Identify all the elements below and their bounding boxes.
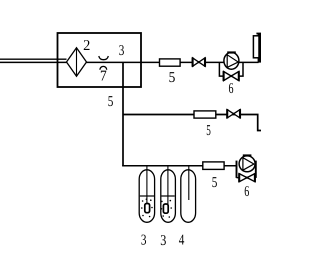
svg-text:3: 3 [119,43,125,59]
wire trunk vertical x=123 [122,62,124,166]
svg-text:4: 4 [179,232,185,248]
wire upper parallel inlet line [0,58,67,60]
svg-text:5: 5 [206,123,211,139]
bottle 3b frit [163,204,168,213]
bottle 3b liquid level [161,195,174,197]
bottle 3b dip tube [167,166,169,204]
bottle 3a liquid level [140,195,154,197]
filter element 2 (diamond) [67,48,87,77]
restrictor 5b (middle row) [194,111,216,118]
valve 6 bypass V2 [224,71,239,81]
pump P2 flange right [255,161,257,178]
tank (top right edge) [253,33,261,63]
valve V4 (below bottom pump) [239,173,255,182]
wire bottom header [122,165,237,167]
svg-text:7: 7 [100,69,107,85]
bottle 3b bubbles [161,200,172,218]
svg-text:5: 5 [108,94,114,110]
wire main supply line y=62.4 [0,61,259,63]
wire bypass loop (top pump) [219,62,243,76]
wire middle branch [123,115,261,131]
valve V1 (top row) [193,57,205,66]
bottle 3a [139,170,154,223]
arc symbol upper (smile) [99,56,109,60]
bottle 3a dip tube [146,166,148,204]
pump P2 (bottom row) [239,156,255,172]
svg-text:5: 5 [212,175,218,191]
svg-text:6: 6 [244,184,249,200]
arc symbol lower 7 (frown) [100,66,107,69]
restrictor 5a (top row) [160,59,181,66]
pump P2 flange left [236,161,238,178]
restrictor 5c (bottom row) [203,162,224,170]
bottle 4 [181,170,196,223]
enclosure box 1 [58,33,142,87]
svg-text:2: 2 [83,38,90,54]
svg-text:5: 5 [169,70,176,86]
pump P1 (top row) [224,52,239,69]
bottle 3a frit [145,204,150,213]
svg-text:3: 3 [160,233,166,249]
wire valve row connector [237,177,256,179]
bottle 3a bubbles [141,199,153,218]
filter vertical axis [76,48,78,77]
svg-text:3: 3 [141,232,147,248]
valve V3 (middle row) [227,109,240,118]
svg-text:6: 6 [229,81,234,97]
bottle 3b [161,170,176,223]
bottle 4 dip tube [188,166,190,200]
